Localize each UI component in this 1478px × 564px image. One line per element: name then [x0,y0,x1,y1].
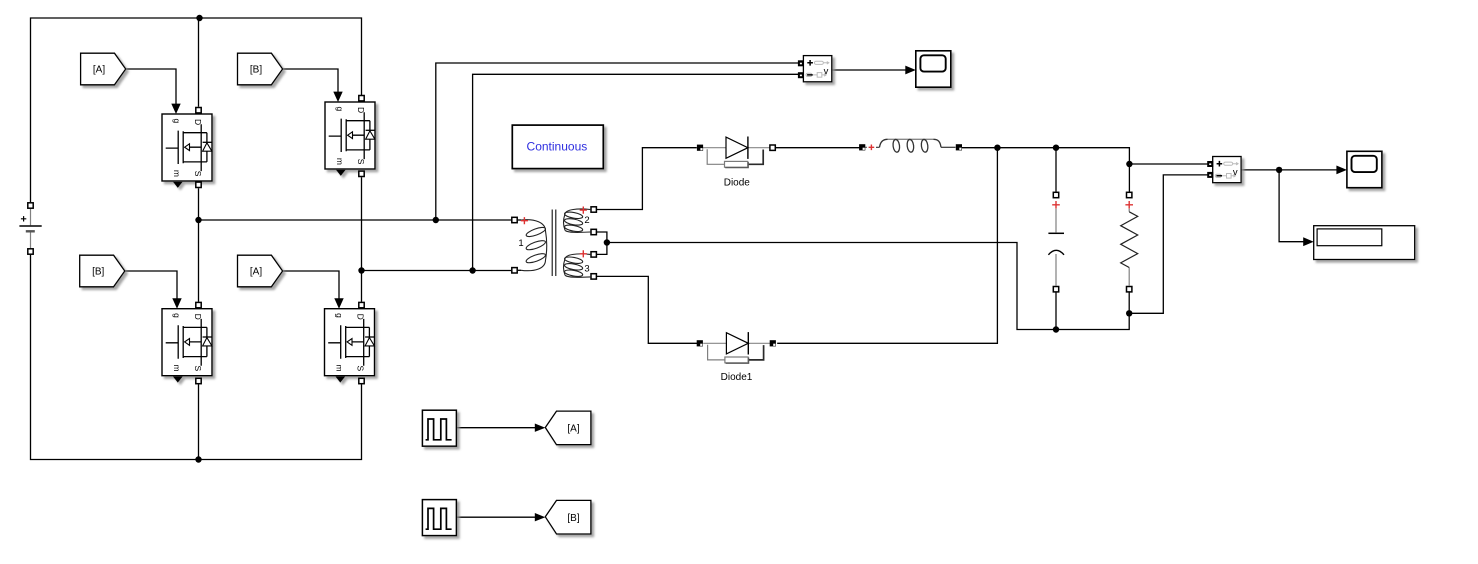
svg-text:Diode: Diode [724,177,751,188]
svg-text:[B]: [B] [250,65,262,76]
svg-text:[A]: [A] [567,424,579,435]
svg-text:[B]: [B] [92,267,104,278]
svg-text:[A]: [A] [250,267,262,278]
svg-text:1: 1 [518,238,523,249]
svg-text:Diode1: Diode1 [721,372,753,383]
svg-text:Continuous: Continuous [527,139,588,153]
svg-text:3: 3 [584,264,589,275]
svg-text:[A]: [A] [93,65,105,76]
svg-text:[B]: [B] [567,513,579,524]
svg-text:2: 2 [584,215,589,226]
